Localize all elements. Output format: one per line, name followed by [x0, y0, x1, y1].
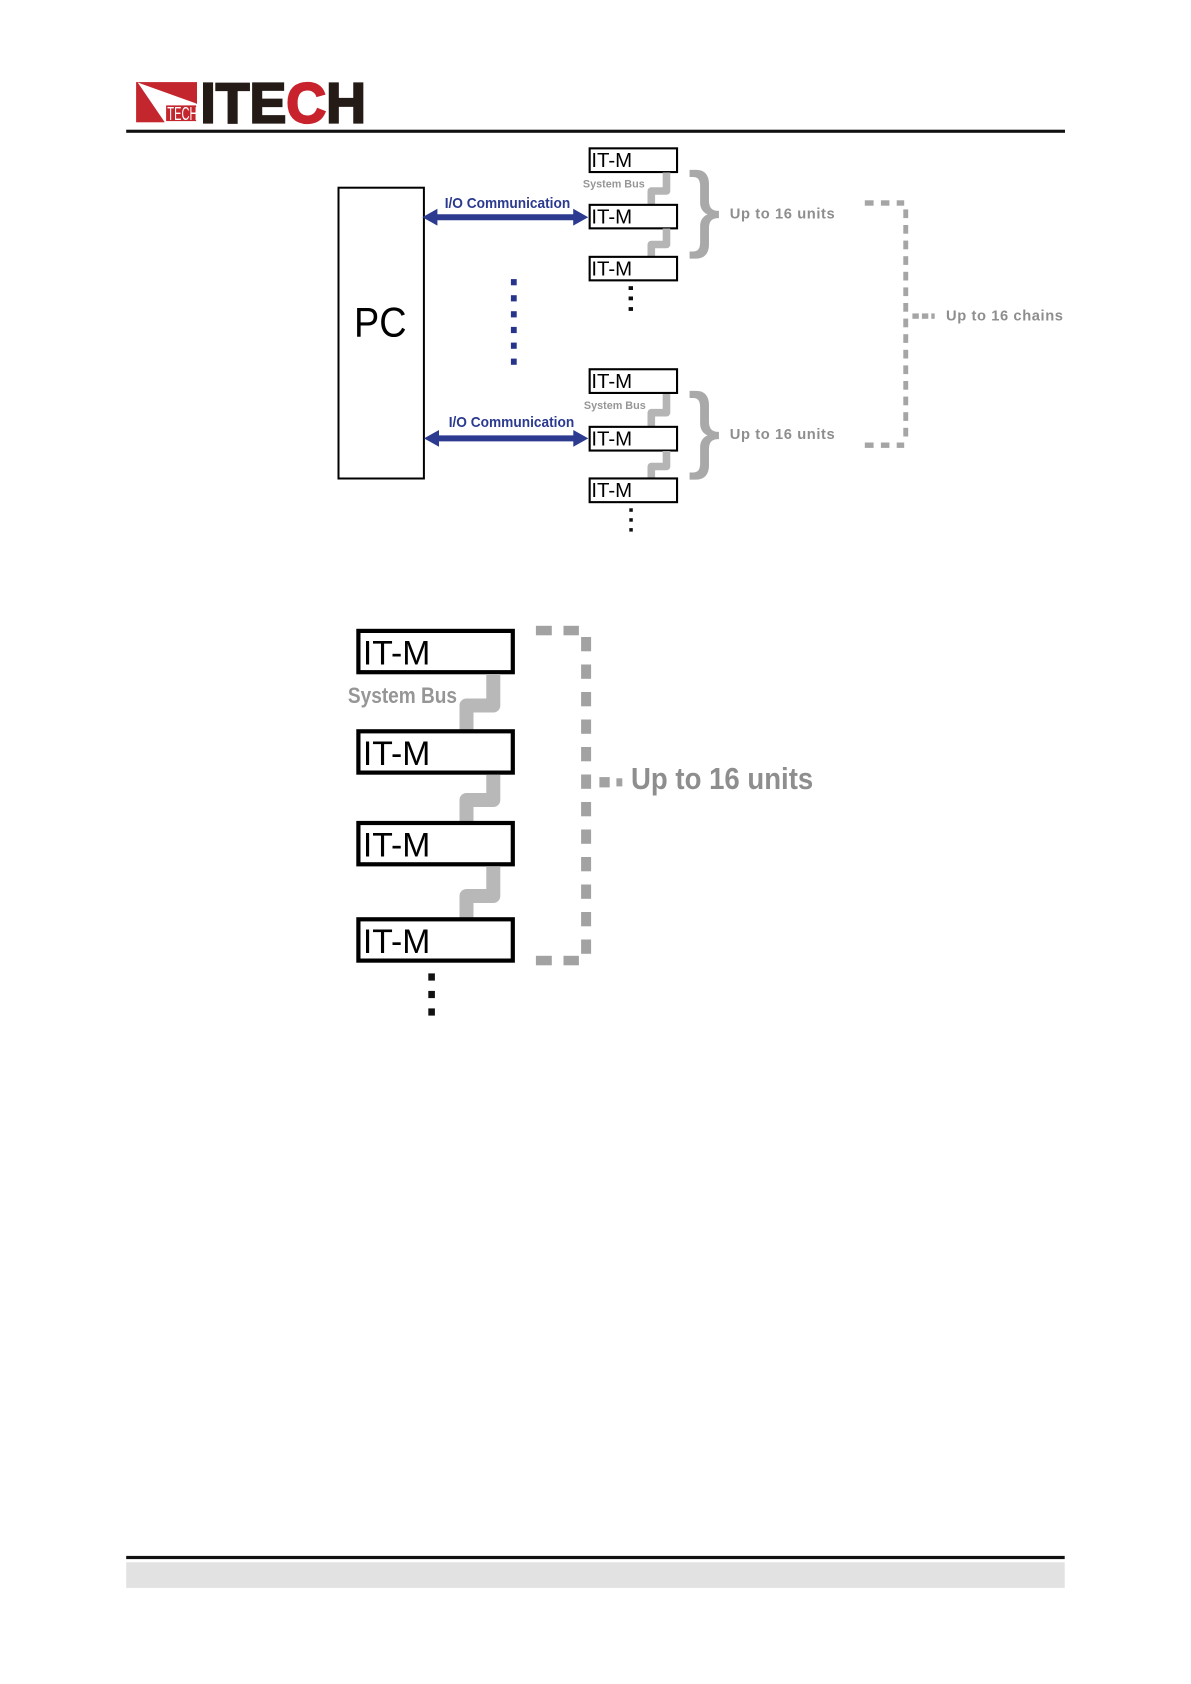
svg-text:PC: PC: [354, 300, 406, 346]
system bus wire C2-C3: [467, 775, 494, 822]
IT-M box C4: [358, 919, 512, 960]
chains bracket bottom dashes: [865, 443, 904, 448]
svg-text:System Bus: System Bus: [348, 684, 457, 708]
system bus wire B2-B3: [651, 451, 666, 479]
svg-text:IT-M: IT-M: [591, 480, 632, 502]
I/O arrow 1: [422, 209, 588, 226]
chains bracket vertical dashed line: [903, 209, 908, 436]
svg-text:Up to 16 units: Up to 16 units: [730, 206, 836, 222]
logo red box: [136, 82, 197, 122]
svg-text:IT-M: IT-M: [591, 371, 632, 393]
IT-M box A2: [590, 205, 677, 229]
units bracket vertical dashed line: [581, 637, 591, 954]
svg-text:}: }: [689, 375, 720, 480]
svg-text:System Bus: System Bus: [584, 400, 646, 412]
svg-text:IT-M: IT-M: [591, 259, 632, 281]
svg-text:I/O Communication: I/O Communication: [445, 194, 570, 210]
svg-text:I/O Communication: I/O Communication: [449, 414, 574, 430]
IT-M box B2: [590, 427, 677, 451]
header rule: [126, 130, 1065, 133]
system bus wire C3-C4: [467, 867, 494, 918]
units pointer dashes: [599, 777, 622, 787]
svg-text:IT-M: IT-M: [591, 429, 632, 451]
svg-text:TECH: TECH: [167, 104, 197, 125]
ellipsis dots under A3: [629, 286, 633, 311]
IT-M box A1: [590, 148, 677, 172]
IT-M box C2: [358, 731, 512, 772]
svg-text:IT-M: IT-M: [363, 634, 430, 672]
svg-text:ITECH: ITECH: [200, 71, 366, 135]
svg-text:IT-M: IT-M: [591, 150, 632, 172]
system bus wire B1-B2: [651, 394, 666, 427]
blue dotted line between chains: [511, 279, 517, 365]
chains bracket top dashes: [865, 200, 904, 205]
IT-M box A3: [590, 257, 677, 281]
svg-text:IT-M: IT-M: [363, 734, 430, 772]
logo TECH box: [165, 105, 197, 122]
chains pointer dashes: [912, 313, 934, 318]
IT-M box C1: [358, 631, 512, 672]
system bus wire A2-A3: [651, 229, 666, 258]
units bracket bottom dashes: [536, 956, 579, 966]
svg-text:Up to 16 chains: Up to 16 chains: [946, 308, 1064, 324]
system bus wire C1-C2: [467, 674, 494, 730]
IT-M box C3: [358, 823, 512, 864]
footer rule: [126, 1556, 1064, 1559]
IT-M box B1: [590, 369, 677, 393]
svg-text:}: }: [689, 154, 720, 259]
logo white arrow: [138, 83, 197, 122]
ellipsis dots under C4: [428, 973, 435, 1015]
svg-text:IT-M: IT-M: [363, 922, 430, 960]
svg-text:IT-M: IT-M: [363, 826, 430, 864]
IT-M box B3: [590, 478, 677, 502]
footer gray bar: [126, 1562, 1064, 1588]
units bracket top dashes: [536, 626, 579, 636]
svg-text:System Bus: System Bus: [583, 179, 645, 191]
system bus wire A1-A2: [651, 173, 666, 206]
svg-text:IT-M: IT-M: [591, 207, 632, 229]
I/O arrow 2: [424, 430, 588, 447]
ellipsis dots under B3: [629, 508, 633, 531]
PC box: [339, 188, 424, 479]
svg-text:Up to 16 units: Up to 16 units: [730, 427, 836, 443]
svg-text:Up to 16 units: Up to 16 units: [631, 763, 813, 797]
